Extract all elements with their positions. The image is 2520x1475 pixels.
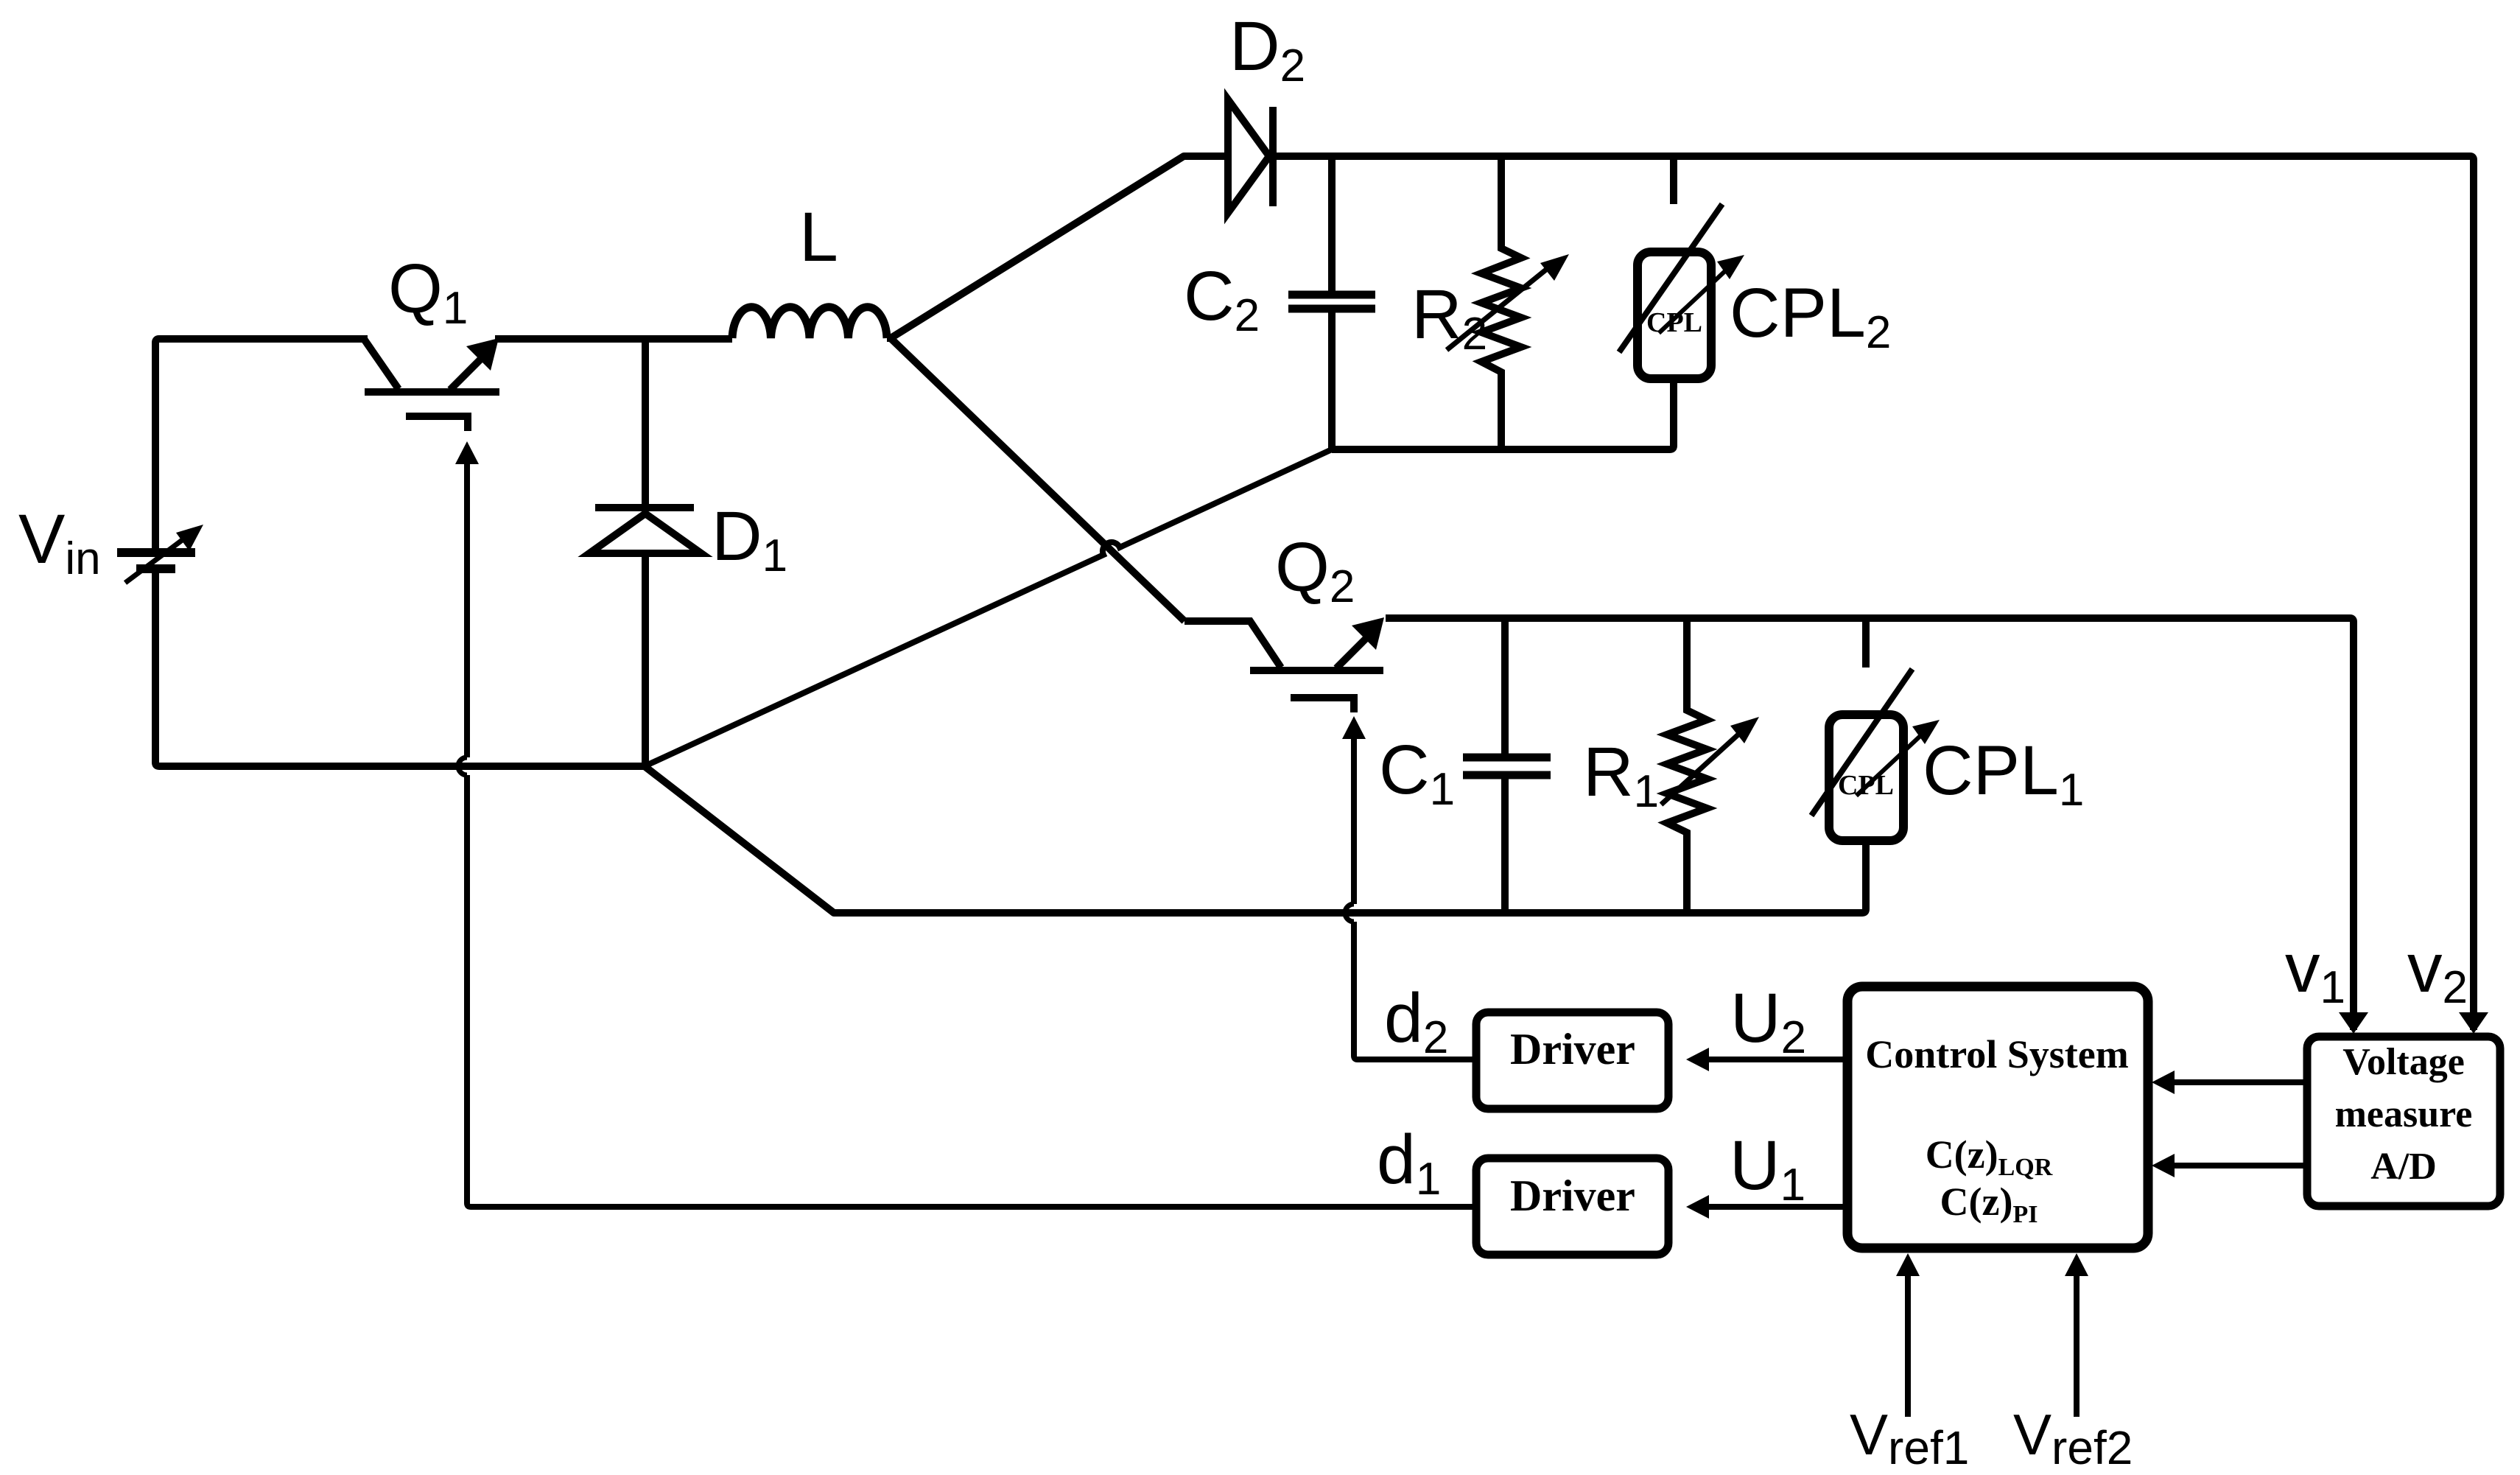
- transistor Q1: [364, 339, 499, 431]
- block Driver 2: [1476, 1012, 1668, 1109]
- svg-text:CPL2: CPL2: [1730, 274, 1891, 358]
- svg-text:C2: C2: [1184, 257, 1260, 341]
- wire Q1 emitter to inductor: [495, 335, 732, 343]
- wire slant to lower rail: [645, 766, 1866, 913]
- svg-text:L: L: [799, 198, 838, 276]
- load CPL2: [1619, 156, 1727, 379]
- svg-text:Q2: Q2: [1275, 528, 1355, 612]
- wire d1 gate line with hop over rail: [458, 461, 1476, 1207]
- arrowhead R2: [1540, 254, 1569, 281]
- svg-text:CPL1: CPL1: [1923, 732, 2084, 816]
- svg-text:R1: R1: [1583, 733, 1659, 817]
- wire top rail to v2 corner: [1273, 156, 2474, 1030]
- wire cross slant B (gnd1 to out2 bottom) with hop over slant A: [645, 449, 1332, 766]
- svg-text:d2: d2: [1384, 979, 1448, 1063]
- svg-text:d1: d1: [1377, 1121, 1441, 1205]
- arrowhead R1: [1730, 717, 1759, 743]
- svg-text:Driver: Driver: [1510, 1025, 1635, 1073]
- node v1 arrow into A/D: [2339, 1012, 2368, 1034]
- wire inductor node slants: [887, 156, 1228, 621]
- Q1 gate arrowhead: [455, 441, 479, 464]
- arrowhead CPL1: [1912, 720, 1940, 744]
- block Control System: [1847, 987, 2148, 1248]
- source Vin: [117, 534, 195, 583]
- wire Vref1 arrow: [1905, 1275, 1911, 1417]
- svg-text:CPL: CPL: [1838, 770, 1894, 801]
- wire d2 gate line: [1345, 737, 1476, 1059]
- capacitor C1: [1463, 618, 1551, 913]
- load CPL1: [1811, 618, 1923, 841]
- svg-text:Vref2: Vref2: [2013, 1402, 2133, 1474]
- svg-text:D1: D1: [712, 497, 787, 581]
- svg-text:A/D: A/D: [2370, 1146, 2437, 1188]
- transistor Q2: [1184, 621, 1383, 712]
- arrowhead CPL2: [1717, 255, 1744, 279]
- svg-text:Voltage: Voltage: [2342, 1041, 2465, 1083]
- svg-text:Control System: Control System: [1865, 1032, 2129, 1076]
- wire A/D to Control upper: [2173, 1079, 2307, 1085]
- diode D1: [589, 339, 701, 766]
- wire output1 top rail to v1 corner: [1386, 618, 2354, 1030]
- resistor R1: [1661, 618, 1741, 913]
- wire A/D to Control lower: [2173, 1163, 2307, 1169]
- svg-text:U1: U1: [1730, 1127, 1805, 1211]
- Q2 emitter arrowhead: [1352, 617, 1384, 650]
- svg-text:U2: U2: [1730, 979, 1806, 1063]
- block Driver 1: [1476, 1158, 1668, 1255]
- wire U2 arrow: [1708, 1057, 1847, 1062]
- svg-text:Vin: Vin: [18, 500, 101, 584]
- block Voltage measure A/D: [2307, 1037, 2500, 1206]
- svg-text:measure: measure: [2335, 1093, 2473, 1135]
- resistor R2: [1447, 156, 1551, 449]
- svg-text:C1: C1: [1379, 731, 1455, 815]
- wire output2 bottom rail: [1332, 379, 1674, 449]
- svg-text:v2: v2: [2407, 929, 2468, 1013]
- svg-text:v1: v1: [2285, 929, 2345, 1013]
- wire U1 arrow: [1708, 1204, 1847, 1210]
- svg-text:Q1: Q1: [388, 250, 468, 334]
- Q1 emitter arrowhead: [466, 338, 499, 371]
- svg-text:C(z)PI: C(z)PI: [1940, 1180, 2038, 1228]
- svg-text:D2: D2: [1229, 7, 1305, 91]
- inductor L: [732, 307, 887, 338]
- svg-text:C(z)LQR: C(z)LQR: [1926, 1132, 2053, 1181]
- node v2 arrow into A/D: [2459, 1012, 2488, 1034]
- capacitor C2: [1288, 156, 1375, 449]
- arrowhead Vin: [176, 525, 203, 551]
- Q2 gate arrowhead: [1342, 716, 1366, 739]
- svg-text:CPL: CPL: [1646, 307, 1702, 338]
- svg-text:R2: R2: [1411, 276, 1487, 360]
- diode D2: [1228, 99, 1273, 213]
- wire input loop left: [155, 339, 645, 766]
- wire Vref2 arrow: [2074, 1275, 2079, 1417]
- svg-text:Driver: Driver: [1510, 1171, 1635, 1220]
